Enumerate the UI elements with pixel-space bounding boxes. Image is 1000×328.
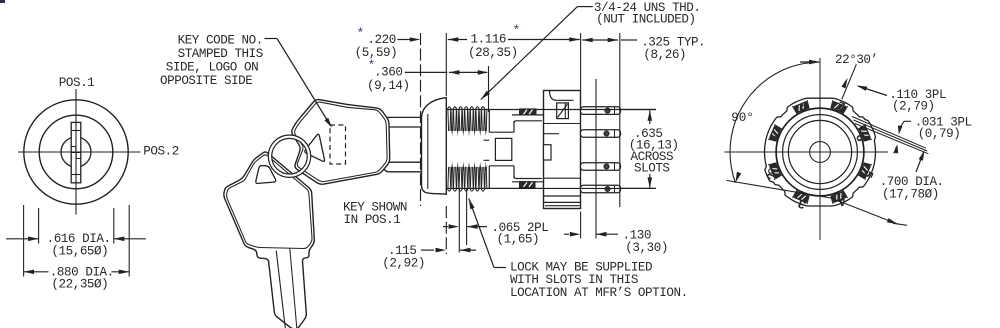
extension line .360 right <box>488 66 490 112</box>
svg-text:OPPOSITE SIDE: OPPOSITE SIDE <box>160 74 252 88</box>
actuator shaft lines <box>484 139 490 141</box>
svg-text:(2,92): (2,92) <box>382 257 425 271</box>
dim .065 2PL <box>443 226 448 228</box>
spare key ring hole <box>256 166 276 184</box>
thread teeth top <box>448 107 452 110</box>
leader to slot location <box>494 267 506 269</box>
dome inner rim <box>427 114 429 189</box>
dim 22deg30 <box>800 61 819 63</box>
terminal blade 3 <box>581 163 621 171</box>
svg-text:(5,59): (5,59) <box>355 46 398 60</box>
thread OD bottom line <box>446 187 656 189</box>
main key bow <box>292 100 390 185</box>
terminal blade 2 <box>581 130 621 138</box>
.880 dia extension lines <box>23 205 25 277</box>
svg-text:STAMPED THIS: STAMPED THIS <box>178 47 263 61</box>
horizontal centerline <box>18 151 141 153</box>
svg-text:.360: .360 <box>374 65 402 79</box>
extension line mounting face bottom <box>580 212 582 239</box>
thread teeth bottom <box>448 189 452 192</box>
svg-text:(1,65): (1,65) <box>497 233 540 247</box>
hatched slot bottom <box>520 182 536 188</box>
svg-text:LOCATION AT MFR’S OPTION.: LOCATION AT MFR’S OPTION. <box>510 286 688 300</box>
hatched slot top <box>520 109 537 115</box>
svg-text:(22,35Ø): (22,35Ø) <box>51 278 108 292</box>
svg-text:(9,14): (9,14) <box>367 79 410 93</box>
svg-text:KEY CODE NO.: KEY CODE NO. <box>178 33 263 47</box>
slot edge lines (optional slots) <box>458 189 460 253</box>
svg-text:*: * <box>513 23 521 38</box>
extension line mounting face top <box>580 33 582 90</box>
terminal blade 1 <box>581 107 621 115</box>
pad terminal 5 <box>859 163 870 178</box>
key neck bars to lock <box>383 117 421 127</box>
svg-text:(17,78Ø): (17,78Ø) <box>882 187 939 201</box>
tilted radial line 22.5deg <box>842 64 857 99</box>
block inner lines <box>544 123 581 125</box>
extension line dashed (dome front) <box>420 33 422 206</box>
svg-text:(15,65Ø): (15,65Ø) <box>51 245 108 259</box>
thread OD top line <box>446 109 656 111</box>
across-slots ext lines over blades <box>544 109 657 111</box>
spare bow inner line <box>227 155 312 249</box>
pad terminal aux <box>794 102 809 113</box>
extension line (thread start) top <box>445 33 447 96</box>
vertical centerline <box>75 89 77 215</box>
.616 dia dimension line + arrows <box>6 238 39 240</box>
polarizing rivet circle lower-left <box>769 169 774 174</box>
rear neck step <box>489 131 514 133</box>
extension line (thread start) bottom dashed <box>445 206 447 254</box>
thread end faces <box>488 110 490 133</box>
.616 dia extension lines <box>38 208 40 244</box>
dim .325 typ <box>582 38 593 43</box>
rear circle inner <box>788 120 851 183</box>
svg-text:SIDE, LOGO ON: SIDE, LOGO ON <box>166 61 258 75</box>
pad terminal 1 <box>770 126 781 141</box>
inner circle .616 dia <box>39 115 113 189</box>
keyway slot <box>71 122 81 182</box>
long leader line lower area <box>727 181 898 225</box>
svg-text:(28,35): (28,35) <box>468 46 518 60</box>
svg-text:90°: 90° <box>731 111 754 125</box>
svg-text:POS.1: POS.1 <box>59 76 95 90</box>
svg-text:SLOTS: SLOTS <box>634 162 670 176</box>
svg-text:(NUT INCLUDED): (NUT INCLUDED) <box>596 12 696 26</box>
pad terminal 6 <box>859 126 870 141</box>
dome cap <box>422 98 447 195</box>
svg-text:LOCK MAY BE SUPPLIED: LOCK MAY BE SUPPLIED <box>510 260 652 274</box>
upper contact hatched rect <box>557 103 569 119</box>
dim 1.116 <box>448 37 459 42</box>
leader from key code note to key bow <box>265 38 278 40</box>
key ring <box>270 137 309 176</box>
svg-text:1.116: 1.116 <box>471 32 507 46</box>
leader .700 up arrow <box>916 153 924 173</box>
keyway wards <box>71 147 76 153</box>
svg-text:POS.2: POS.2 <box>143 144 179 158</box>
rear center circle <box>810 142 831 163</box>
dim .110 3PL <box>858 86 887 96</box>
extension line .130 right <box>595 79 597 239</box>
leader to threads <box>577 6 592 8</box>
pad terminal 7 <box>831 102 846 113</box>
blade grooves <box>276 251 285 328</box>
svg-text:WITH SLOTS IN THIS: WITH SLOTS IN THIS <box>510 273 638 287</box>
svg-text:IN POS.1: IN POS.1 <box>344 213 401 227</box>
switch block body <box>544 91 581 209</box>
svg-text:(0,79): (0,79) <box>918 127 961 141</box>
pad terminal 4 <box>831 191 846 202</box>
key bow triangular hole <box>305 134 325 161</box>
rear bold circle .700 area <box>776 108 864 196</box>
key code dashed rect <box>330 125 346 164</box>
.880 dia dimension line + arrows <box>24 271 49 273</box>
svg-text:(2,79): (2,79) <box>892 100 935 114</box>
coupling box <box>495 138 511 160</box>
rear crosshair <box>819 58 821 240</box>
stray corner mark <box>0 0 5 3</box>
dim .130 <box>564 233 569 235</box>
terminal blade 4 <box>581 185 621 193</box>
plug circle <box>61 137 91 167</box>
svg-text:*: * <box>357 26 365 41</box>
outer circle .880 dia <box>24 100 128 204</box>
vertical dim line .635 <box>649 110 651 124</box>
shaft boss on block face <box>544 145 552 160</box>
dim 90deg arc <box>730 62 820 183</box>
block foot lines <box>544 195 581 197</box>
slot zone lines <box>512 114 544 116</box>
polarizing rivet circle top <box>800 105 805 110</box>
pad terminal 3 <box>794 191 809 202</box>
rear housing outline <box>765 98 876 206</box>
rear circle mid <box>783 115 858 190</box>
svg-text:(3,30): (3,30) <box>625 241 668 255</box>
.031 slot lines bundle <box>852 117 926 149</box>
svg-text:(8,26): (8,26) <box>643 48 686 62</box>
block top notch <box>550 91 574 101</box>
extension line .325 right / blade tips <box>619 33 621 207</box>
spare key <box>224 152 314 328</box>
pad terminal 2 <box>770 163 781 178</box>
